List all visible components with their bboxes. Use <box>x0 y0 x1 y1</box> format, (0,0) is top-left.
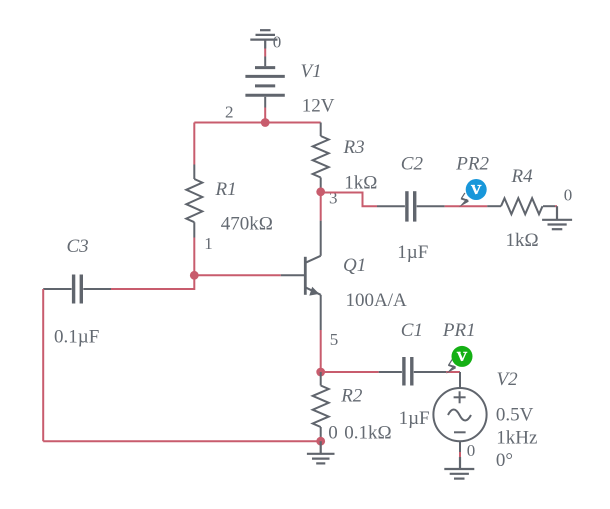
svg-text:R4: R4 <box>511 166 534 187</box>
svg-text:PR2: PR2 <box>455 154 489 175</box>
svg-text:V2: V2 <box>497 369 519 390</box>
probe PR1 <box>446 346 472 374</box>
svg-text:R1: R1 <box>215 179 237 200</box>
svg-text:1µF: 1µF <box>399 408 430 429</box>
wire R1 to node 1 <box>193 238 195 276</box>
ground (net 0, below V2) <box>444 457 474 479</box>
wire node 1 to Q1 base <box>194 274 280 276</box>
wire C1 to V2 <box>446 371 460 373</box>
junction node 3 <box>316 187 325 196</box>
svg-text:0.1kΩ: 0.1kΩ <box>344 423 391 444</box>
capacitor C2 <box>377 191 445 221</box>
svg-text:0: 0 <box>467 441 476 460</box>
wire R3 to Q1 collector <box>320 192 322 221</box>
ground (net 0, above V1) <box>250 30 277 48</box>
svg-text:12V: 12V <box>302 96 335 117</box>
svg-text:0: 0 <box>328 423 338 444</box>
wire R4 to ground <box>555 205 557 207</box>
wire Q1 emitter to node 5 <box>320 330 322 372</box>
svg-text:1kΩ: 1kΩ <box>344 172 377 193</box>
wire C3 left down <box>42 289 44 441</box>
resistor R1 <box>186 165 202 238</box>
AC source V2 <box>433 372 486 452</box>
probe PR2 <box>459 179 487 207</box>
svg-text:0: 0 <box>273 32 282 51</box>
svg-text:470kΩ: 470kΩ <box>221 213 273 234</box>
svg-text:2: 2 <box>225 102 234 121</box>
svg-text:1: 1 <box>204 234 213 253</box>
capacitor C1 <box>379 357 447 386</box>
svg-text:0.1µF: 0.1µF <box>54 327 99 348</box>
resistor R2 <box>313 372 329 441</box>
wire V2 to ground <box>459 452 461 457</box>
svg-text:Q1: Q1 <box>343 255 366 276</box>
ground (net 0, below R2) <box>307 441 335 463</box>
wire V1 to node 2 <box>264 108 266 123</box>
svg-text:100A/A: 100A/A <box>346 290 408 311</box>
svg-text:0.5V: 0.5V <box>496 405 534 426</box>
junction node 0 (R2 bottom) <box>316 437 325 446</box>
svg-text:C2: C2 <box>401 154 424 175</box>
battery V1 <box>245 57 284 108</box>
svg-text:R2: R2 <box>340 385 363 406</box>
junction node 2 <box>261 118 270 127</box>
svg-text:1kHz: 1kHz <box>496 428 537 449</box>
svg-text:PR1: PR1 <box>442 320 476 341</box>
resistor R3 <box>313 123 329 192</box>
capacitor C3 <box>43 275 111 304</box>
wire node 3 to C2 <box>321 193 377 207</box>
wire node 2 horizontal <box>194 122 320 124</box>
svg-text:V1: V1 <box>301 61 322 82</box>
svg-text:5: 5 <box>330 330 339 349</box>
wire node 5 to C1 <box>321 371 379 373</box>
transistor Q1 <box>281 221 321 330</box>
svg-text:0°: 0° <box>496 450 513 471</box>
svg-text:C1: C1 <box>401 320 423 341</box>
svg-text:3: 3 <box>329 188 338 207</box>
wire node 2 to R1 <box>193 123 195 165</box>
wire C3 to node 1 <box>111 275 194 289</box>
svg-text:1kΩ: 1kΩ <box>506 230 539 251</box>
svg-text:0: 0 <box>564 186 573 205</box>
junction node 1 <box>190 271 199 280</box>
svg-text:1µF: 1µF <box>397 242 428 263</box>
wire C2 to R4 <box>445 205 488 207</box>
svg-text:C3: C3 <box>67 236 89 257</box>
wire ground to V1 <box>264 49 266 57</box>
wire bottom C3 to R2 <box>43 440 321 442</box>
resistor R4 <box>487 198 555 214</box>
ground (net 0, right of R4) <box>542 206 572 229</box>
junction node 5 <box>316 368 325 377</box>
svg-text:R3: R3 <box>343 137 365 158</box>
